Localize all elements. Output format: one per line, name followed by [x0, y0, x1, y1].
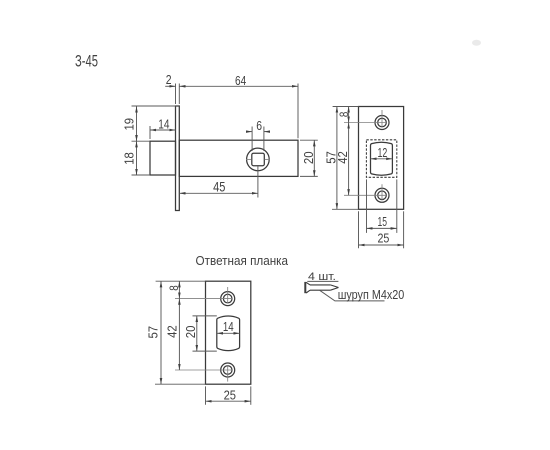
latch bolt (side view)	[150, 141, 176, 175]
dimension 20 line (body)	[313, 140, 315, 176]
faceplate latch cutout barrel	[371, 142, 393, 175]
svg-text:57: 57	[324, 151, 339, 164]
extension line plate left face up	[175, 84, 177, 105]
svg-text:шуруп M4x20: шуруп M4x20	[338, 288, 405, 302]
dimension 8 line (strike)	[178, 281, 180, 298]
extension line plate top to left	[132, 105, 176, 107]
dimension 14 line	[150, 129, 176, 131]
svg-text:З-45: З-45	[75, 52, 98, 71]
dimension 8 line (faceplate)	[348, 107, 350, 123]
extension line body right bottom	[300, 175, 318, 177]
svg-text:20: 20	[183, 326, 198, 339]
svg-text:45: 45	[213, 179, 225, 194]
screw head taper top	[306, 282, 310, 285]
svg-text:8: 8	[167, 285, 181, 291]
svg-text:25: 25	[377, 231, 389, 246]
dimension 42 line (faceplate)	[348, 123, 350, 196]
spindle hole circle	[247, 148, 270, 171]
svg-text:20: 20	[301, 152, 316, 165]
dimension 12 line	[371, 158, 393, 160]
dimension 6 left stub	[247, 131, 252, 133]
strike top screw hole inner	[223, 294, 232, 303]
svg-text:19: 19	[122, 118, 137, 131]
svg-text:12: 12	[378, 145, 388, 160]
dimension 57 line (faceplate)	[336, 107, 338, 210]
extension plate bl down	[358, 211, 360, 248]
svg-text:64: 64	[235, 73, 246, 88]
faceplate bottom screw hole inner	[378, 191, 387, 200]
extension dashed rect right down	[396, 179, 398, 233]
svg-text:25: 25	[224, 387, 236, 402]
extension strike plate top left	[156, 280, 206, 282]
dimension 57 line (strike)	[160, 281, 162, 384]
extension strike plate br down	[250, 386, 252, 404]
spindle square hole	[252, 153, 264, 166]
centerline bottom hole vertical	[381, 184, 383, 200]
dimension 14 line (strike)	[217, 332, 240, 334]
svg-text:6: 6	[256, 118, 262, 133]
screw shaft bottom	[310, 289, 330, 291]
extension barrel bottom left	[193, 350, 217, 352]
extension plate top left	[333, 106, 359, 108]
latch faceplate (side view, vertical bar)	[176, 106, 180, 211]
screw tip bottom	[330, 288, 338, 291]
extension barrel top left	[193, 315, 217, 317]
centerline bottom hole horizontal	[344, 194, 386, 196]
faceplate top screw hole inner	[378, 118, 387, 127]
dimension 6 right stub	[264, 131, 269, 133]
dimension 20 line (strike)	[196, 316, 198, 351]
extension line body right edge up	[297, 84, 299, 139]
screw tip top	[330, 285, 338, 288]
centerline top hole horizontal	[344, 122, 386, 124]
dimension 25 line (strike)	[206, 400, 251, 402]
extension line square left up	[251, 127, 253, 152]
svg-text:57: 57	[145, 326, 160, 339]
faceplate bottom screw hole outer	[375, 188, 389, 202]
extension dashed rect left down	[366, 179, 368, 233]
svg-text:15: 15	[378, 214, 388, 229]
extension strike plate bl down	[205, 386, 207, 404]
dimension 19 line	[136, 106, 138, 141]
svg-text:42: 42	[164, 325, 179, 338]
centerline strike top hole vertical	[227, 287, 229, 303]
svg-text:Ответная планка: Ответная планка	[196, 254, 289, 268]
extension line bolt top to left	[132, 140, 151, 142]
strike top screw hole outer	[221, 292, 235, 306]
svg-text:4 шт.: 4 шт.	[308, 271, 336, 283]
strike plate outline	[206, 281, 251, 384]
svg-text:2: 2	[166, 72, 172, 87]
centerline strike bottom hole vertical	[227, 366, 229, 382]
extension line bolt left corner up	[149, 126, 151, 139]
faceplate outline	[359, 107, 404, 210]
extension line body right top	[300, 139, 318, 141]
screw shaft top	[310, 284, 330, 286]
dimension 45 line	[179, 192, 258, 194]
centerline horizontal through spindle right	[265, 158, 270, 160]
strike bottom screw hole inner	[223, 366, 232, 375]
svg-text:14: 14	[223, 319, 234, 334]
centerline horizontal through spindle left	[246, 158, 252, 160]
extension line plate right face up	[178, 84, 180, 105]
centerline top hole vertical	[381, 110, 383, 127]
faint smudge top right	[472, 40, 481, 46]
centerline strike bottom hole horizontal	[175, 369, 232, 371]
extension line square right up	[263, 127, 265, 152]
extension strike plate bottom left	[155, 383, 206, 385]
dimension 15 line	[367, 227, 397, 229]
dimension 2 stub arrow	[165, 85, 175, 87]
dimension 42 line (strike)	[178, 299, 180, 370]
extension plate br down	[403, 211, 405, 248]
faceplate dashed rectangle	[366, 140, 396, 178]
svg-text:18: 18	[122, 152, 137, 165]
label 4 шт underline	[307, 280, 338, 282]
extension line bolt bottom to left	[132, 174, 151, 176]
leader to шуруп label	[320, 290, 385, 301]
svg-text:14: 14	[158, 116, 169, 131]
faceplate top screw hole outer	[375, 116, 389, 130]
dimension 64 line	[179, 85, 298, 87]
latch body (side view)	[179, 140, 298, 176]
centerline strike top hole horizontal	[175, 298, 232, 300]
strike latch cutout barrel	[217, 316, 240, 351]
strike bottom screw hole outer	[221, 363, 235, 377]
dimension 25 line (faceplate)	[359, 244, 404, 246]
screw head	[304, 282, 306, 293]
extension plate bottom left	[332, 208, 359, 210]
svg-text:8: 8	[337, 111, 351, 117]
screw head taper bottom	[306, 290, 310, 293]
dimension 18 line	[136, 141, 138, 175]
centerline below spindle	[257, 166, 259, 198]
